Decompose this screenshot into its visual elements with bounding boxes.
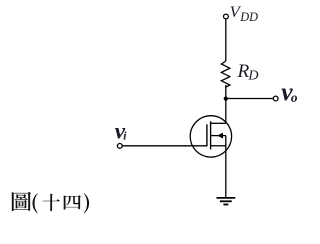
caption glyph ( paren [32,193,37,213]
wire VDD to resistor [225,19,227,61]
label vi [115,118,128,143]
transistor Q1 gate bar [206,124,208,146]
wire body corner down to ground [225,136,227,198]
label RD [237,61,259,83]
node VDD terminal [224,14,229,19]
wire resistor to drain node [225,85,227,99]
caption glyph 十 (ten) [43,194,60,211]
ground [217,198,236,205]
wire vi to gate [122,145,207,147]
caption glyph 圖 (figure) [12,192,31,211]
transistor Q1 channel bar [210,121,212,149]
label vo [281,77,298,106]
junction node (drain) [224,97,228,101]
transistor Q1 MOSFET body circle [190,116,231,157]
wire drain node to vo terminal [226,98,273,100]
node vi terminal [117,144,122,149]
resistor RD [221,61,229,87]
transistor Q1 source stub [211,145,226,147]
wire drain node down to transistor drain [225,99,227,124]
transistor Q1 body stub with arrow [211,135,226,137]
node vo terminal [273,96,278,101]
transistor Q1 drain stub [211,122,226,124]
label VDD [230,4,259,24]
svg-text:o: o [291,90,298,105]
svg-text:i: i [123,131,127,143]
transistor Q1 arrowhead [217,133,223,139]
svg-text:DD: DD [239,10,258,24]
caption glyph ) paren [84,193,89,213]
svg-text:D: D [247,68,258,83]
caption glyph 四 (four) [64,195,81,209]
